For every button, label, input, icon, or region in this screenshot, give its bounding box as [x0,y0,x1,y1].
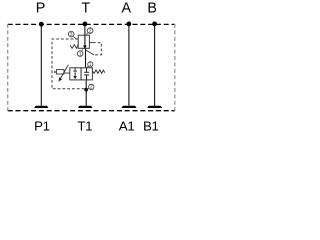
svg-text:T: T [81,1,90,17]
node drain junction dot on T line [84,88,88,92]
manifold boundary left edge [7,24,9,111]
proportional valve V2 body right square [81,68,92,80]
proportional valve V2 body left square [70,68,81,80]
pin label 1 (relief valve) [77,49,83,57]
manifold boundary right edge [174,24,176,111]
port A1 symbol bar [122,106,137,108]
pin label 2 (relief valve) [86,28,93,35]
svg-text:1: 1 [89,62,92,68]
pin label 1 (proportional valve) [87,62,93,68]
relief valve U1 internal flow arrow [83,35,87,49]
svg-text:A: A [122,1,132,17]
V2 proportional arrow (slash with head) [59,65,69,82]
svg-text:3: 3 [70,32,73,38]
port B1 symbol bar [147,106,162,108]
wire T line mid segment (relief valve to proportional valve) [85,48,87,68]
relief valve U1 spring [70,44,78,48]
V2 solenoid to body connector [64,72,70,74]
V2 left position symbols (stub, bar, arrow down) [73,68,77,80]
svg-text:P1: P1 [34,118,50,133]
V2 right position symbols (blocked ports) [84,68,89,80]
wire pilot loop diagonal to T line [85,50,94,55]
port T1 symbol bar [78,106,93,108]
V2 proportional solenoid box [56,70,64,74]
relief valve U1 pilot tap (right side) [89,42,93,44]
V2 solenoid lead tick [55,71,57,73]
svg-text:2: 2 [89,28,92,34]
svg-text:1: 1 [79,51,82,57]
svg-text:B1: B1 [143,118,159,133]
wire B line vertical [154,24,156,106]
relief valve U1 body square [78,35,89,48]
wire A line vertical [128,24,130,106]
svg-text:T1: T1 [77,118,92,133]
svg-text:A1: A1 [119,118,135,133]
wire T line upper segment [84,24,86,35]
manifold boundary bottom edge [8,110,175,112]
node T junction dot [83,22,88,27]
svg-text:2: 2 [90,85,93,91]
relief valve U1 pilot line dashed loop [93,43,101,55]
pin label 2 (proportional valve) [87,84,94,90]
svg-text:P: P [36,1,46,17]
wire P line vertical [40,24,42,106]
node P junction dot [39,22,44,27]
pin label 3 (relief valve) [68,31,76,38]
wire T line lower segment (valve to port T1) [85,80,87,106]
node B junction dot [152,22,157,27]
svg-text:B: B [147,1,157,17]
port P1 symbol bar [34,106,48,108]
node A junction dot [126,22,131,27]
relief valve U1 drain port 3 dashed line [52,39,85,89]
manifold boundary top edge [8,23,175,25]
V2 return spring [92,70,104,73]
